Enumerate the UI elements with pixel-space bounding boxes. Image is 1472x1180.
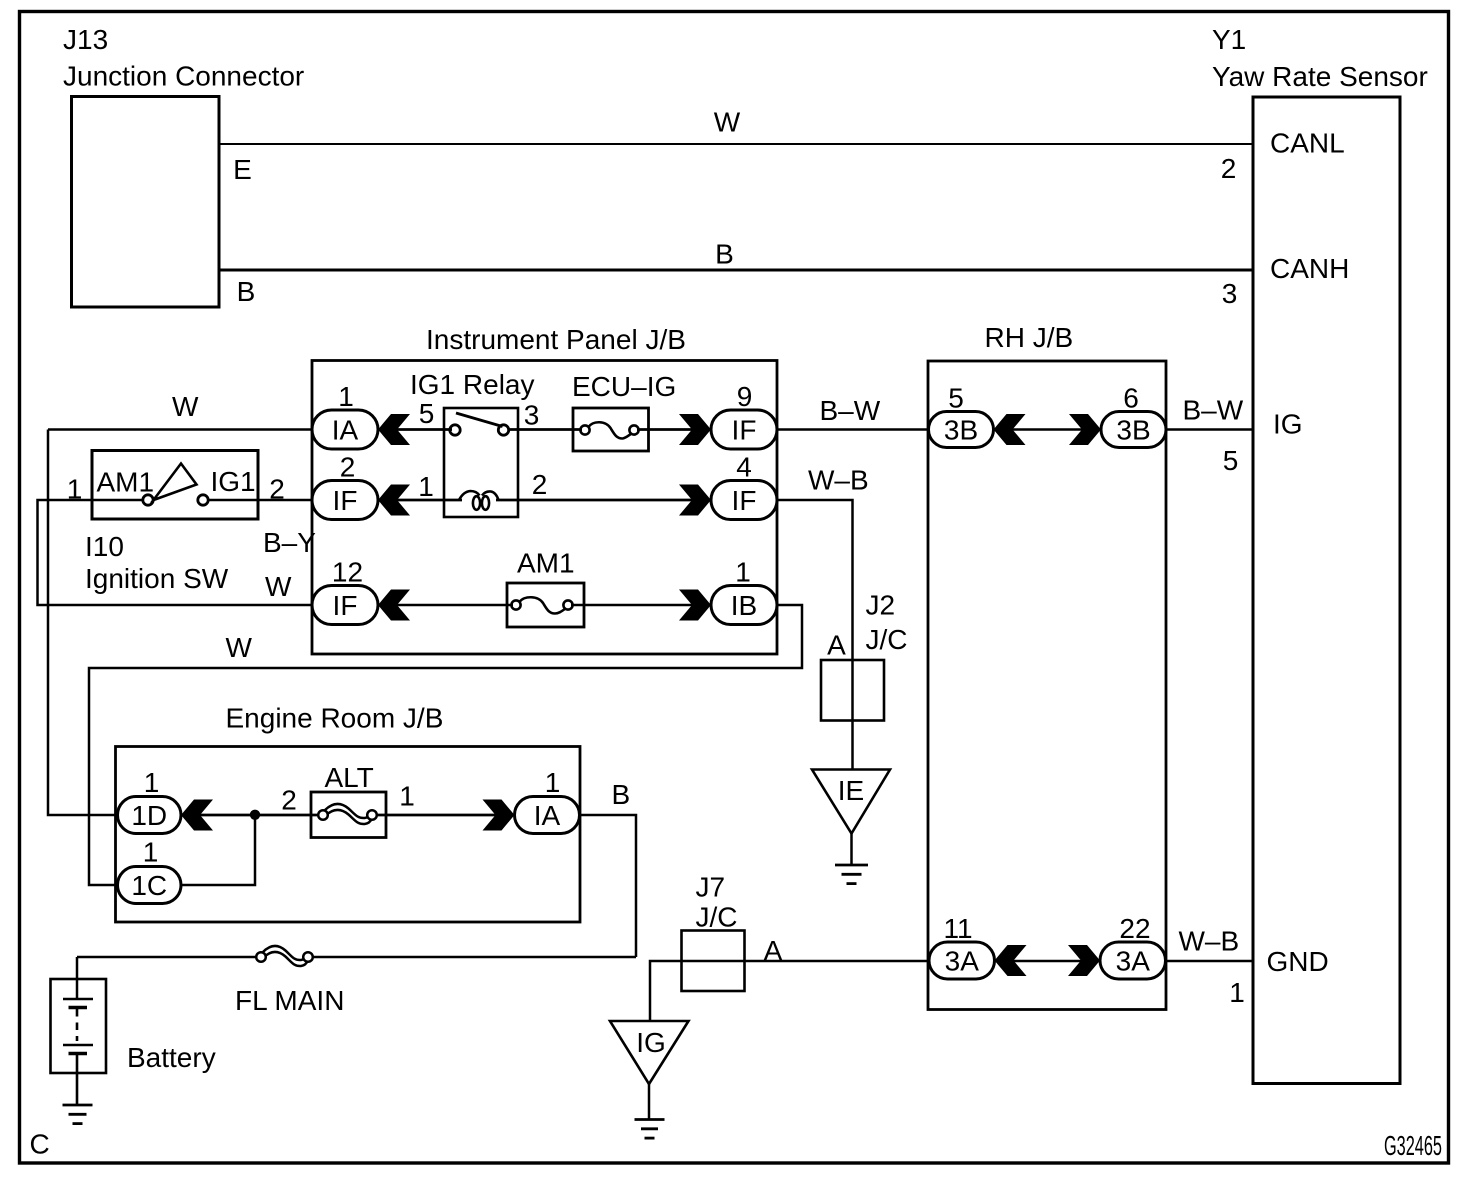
wire relay coil to IF4 xyxy=(496,499,711,502)
svg-text:3B: 3B xyxy=(1116,415,1150,446)
svg-text:Ignition SW: Ignition SW xyxy=(85,563,229,594)
svg-text:1D: 1D xyxy=(131,800,167,831)
svg-text:IF: IF xyxy=(333,485,358,516)
svg-text:1: 1 xyxy=(735,557,751,588)
svg-text:2: 2 xyxy=(269,474,285,505)
svg-text:IA: IA xyxy=(332,415,359,446)
svg-text:Junction Connector: Junction Connector xyxy=(63,61,304,92)
svg-text:GND: GND xyxy=(1267,946,1329,977)
arrow into 3A11 xyxy=(995,945,1027,976)
connector IA engine room pin1 xyxy=(515,797,580,834)
wire W from IB1 down and left to 1C riser xyxy=(89,605,802,885)
svg-text:ECU–IG: ECU–IG xyxy=(572,371,676,402)
svg-text:CANH: CANH xyxy=(1270,253,1349,284)
svg-text:1: 1 xyxy=(399,781,415,812)
wire B-W 3B6 to Y1 IG pin5 xyxy=(1166,428,1253,431)
svg-text:FL MAIN: FL MAIN xyxy=(235,985,344,1016)
svg-text:2: 2 xyxy=(1221,153,1237,184)
svg-text:J/C: J/C xyxy=(696,902,738,933)
svg-text:Yaw Rate Sensor: Yaw Rate Sensor xyxy=(1212,61,1428,92)
arrow into 3B6 xyxy=(1069,414,1101,445)
svg-text:J13: J13 xyxy=(63,24,108,55)
svg-text:AM1: AM1 xyxy=(517,548,575,579)
svg-text:E: E xyxy=(233,154,252,185)
svg-text:IA: IA xyxy=(534,800,561,831)
svg-text:1C: 1C xyxy=(131,870,167,901)
ground triangle IG xyxy=(610,1021,689,1084)
wire W-B 3A22 to Y1 GND pin1 xyxy=(1166,960,1253,963)
wire between 3B5 and 3B6 xyxy=(993,428,1101,431)
arrow into IF2 xyxy=(378,485,410,516)
svg-text:1: 1 xyxy=(545,767,561,798)
svg-text:ALT: ALT xyxy=(325,762,374,793)
svg-text:4: 4 xyxy=(736,452,752,483)
svg-text:J2: J2 xyxy=(866,590,896,621)
wire IG triangle to ground xyxy=(648,1084,651,1119)
svg-text:1: 1 xyxy=(338,381,354,412)
svg-text:A: A xyxy=(764,935,783,966)
relay IG1 switch blade xyxy=(456,413,503,427)
svg-text:3A: 3A xyxy=(1116,946,1151,977)
connector IF instrument panel pin2 xyxy=(312,481,378,520)
wire IG1 contact to ignition box right xyxy=(208,499,259,502)
ignition switch lever xyxy=(154,464,197,501)
wire B CANH (J13 B to Y1 pin3) xyxy=(219,269,1253,272)
wire ignition box left to AM1 contact xyxy=(92,499,144,502)
svg-text:W: W xyxy=(226,632,253,663)
connector 1D engine room pin1 xyxy=(118,797,182,834)
fusible link ALT box xyxy=(311,792,386,838)
svg-text:C: C xyxy=(30,1129,50,1160)
wire ALT to engine IA xyxy=(376,814,515,817)
svg-text:1: 1 xyxy=(418,471,434,502)
svg-text:J/C: J/C xyxy=(866,624,908,655)
svg-text:IF: IF xyxy=(333,590,358,621)
svg-text:IG: IG xyxy=(1273,409,1303,440)
wire IE triangle to ground xyxy=(850,834,853,866)
fuse AM1 box xyxy=(507,583,584,627)
svg-text:6: 6 xyxy=(1123,383,1139,414)
fuse ECU-IG element xyxy=(580,422,638,438)
svg-text:IE: IE xyxy=(838,775,864,806)
yaw rate sensor Y1 box xyxy=(1253,97,1400,1084)
wire B-W IF9 to 3B5 xyxy=(777,428,929,431)
relay IG1 contact pins xyxy=(450,425,509,435)
svg-text:W: W xyxy=(172,391,199,422)
wire W from IA to left riser xyxy=(48,428,312,431)
wire fuse AM1 to IB1 xyxy=(571,604,711,607)
wire B engine IA to FL MAIN riser xyxy=(580,815,636,957)
junction J7 J/C box xyxy=(682,931,745,992)
svg-text:9: 9 xyxy=(737,381,753,412)
svg-text:5: 5 xyxy=(1223,445,1239,476)
relay IG1 box xyxy=(444,408,518,517)
arrow into IF9 xyxy=(679,414,711,445)
wire fuse ECU-IG to IF9 xyxy=(637,428,711,431)
svg-text:2: 2 xyxy=(532,469,548,500)
svg-text:J7: J7 xyxy=(696,872,726,903)
svg-text:B: B xyxy=(612,779,631,810)
wire between 3A11 and 3A22 xyxy=(994,960,1100,963)
svg-text:IG1 Relay: IG1 Relay xyxy=(410,369,535,400)
junction J2 J/C box xyxy=(821,660,884,721)
svg-text:IF: IF xyxy=(732,485,757,516)
ignition switch contacts AM1 IG1 xyxy=(143,495,208,505)
wire 1D row to ALT xyxy=(181,814,319,817)
svg-text:5: 5 xyxy=(419,398,435,429)
battery box xyxy=(51,979,107,1073)
svg-text:2: 2 xyxy=(340,452,356,483)
Engine Room J/B box xyxy=(116,747,581,923)
svg-text:AM1: AM1 xyxy=(97,467,155,498)
svg-text:G32465: G32465 xyxy=(1384,1130,1442,1161)
svg-text:5: 5 xyxy=(948,383,964,414)
svg-text:3B: 3B xyxy=(944,415,978,446)
svg-text:Instrument Panel J/B: Instrument Panel J/B xyxy=(426,324,686,355)
svg-text:1: 1 xyxy=(67,474,83,505)
svg-text:IG1: IG1 xyxy=(211,466,256,497)
connector 1C engine room pin1 xyxy=(118,867,182,904)
svg-text:RH J/B: RH J/B xyxy=(985,322,1074,353)
svg-text:I10: I10 xyxy=(85,531,124,562)
svg-text:3A: 3A xyxy=(945,946,980,977)
Instrument Panel J/B box xyxy=(312,361,777,655)
svg-text:Engine Room J/B: Engine Room J/B xyxy=(226,703,444,734)
wire FL MAIN row right xyxy=(311,956,636,959)
wire battery feed xyxy=(76,957,79,999)
connector IA instrument panel pin1 xyxy=(312,410,378,449)
wire W-B 3A11 through J7 to IG triangle xyxy=(650,961,929,1021)
wire IF12 to fuse AM1 xyxy=(378,604,513,607)
svg-text:W–B: W–B xyxy=(808,465,869,496)
node junction dot on 1D row xyxy=(250,810,260,820)
arrow into 1D xyxy=(181,800,213,831)
connector 3B RH J/B pin5 xyxy=(929,412,994,448)
svg-text:B: B xyxy=(237,276,256,307)
arrow into IA xyxy=(378,414,410,445)
svg-text:2: 2 xyxy=(281,785,297,816)
svg-text:W: W xyxy=(714,107,741,138)
svg-text:IG: IG xyxy=(636,1027,666,1058)
connector 3B RH J/B pin6 xyxy=(1101,412,1166,448)
svg-text:B–W: B–W xyxy=(820,395,881,426)
connector IB instrument panel pin1 xyxy=(711,586,777,625)
arrow into 3A22 xyxy=(1068,945,1100,976)
wire IF2 to relay coil xyxy=(378,499,462,502)
svg-text:1: 1 xyxy=(1229,977,1245,1008)
svg-text:3: 3 xyxy=(1222,278,1238,309)
fuse ECU-IG box xyxy=(573,408,649,451)
svg-text:1: 1 xyxy=(143,837,159,868)
battery cells xyxy=(63,999,93,1105)
ground IG xyxy=(635,1120,665,1139)
svg-text:Battery: Battery xyxy=(127,1042,216,1073)
svg-text:B–W: B–W xyxy=(1183,395,1244,426)
svg-text:12: 12 xyxy=(332,557,363,588)
svg-text:CANL: CANL xyxy=(1270,128,1345,159)
svg-text:B: B xyxy=(715,239,734,270)
wire W-B IF4 to J2 junction xyxy=(777,500,853,769)
wire FL MAIN row left xyxy=(77,956,258,959)
svg-text:W: W xyxy=(265,571,292,602)
wire relay to fuse ECU-IG xyxy=(508,428,582,431)
fusible link ALT element xyxy=(318,804,377,824)
ground triangle IE xyxy=(812,770,890,834)
wire 1C to junction node xyxy=(180,815,255,885)
connector IF instrument panel pin4 xyxy=(711,481,777,520)
svg-text:3: 3 xyxy=(524,400,540,431)
relay IG1 coil xyxy=(459,491,499,510)
fusible link FL MAIN element xyxy=(256,946,313,966)
connector IF instrument panel pin9 xyxy=(711,410,777,449)
fuse AM1 element xyxy=(511,597,572,613)
ignition switch I10 box xyxy=(92,451,258,520)
svg-text:11: 11 xyxy=(943,913,972,944)
arrow into IB1 xyxy=(679,590,711,621)
svg-text:IF: IF xyxy=(732,415,757,446)
arrow into IF12 xyxy=(378,590,410,621)
svg-text:1: 1 xyxy=(144,767,160,798)
junction connector J13 box xyxy=(72,97,220,308)
wire row IG inside panel left xyxy=(378,428,452,431)
svg-text:22: 22 xyxy=(1119,913,1150,944)
arrow into engine IA xyxy=(483,800,515,831)
connector 3A RH J/B pin22 xyxy=(1100,942,1166,979)
svg-text:W–B: W–B xyxy=(1179,926,1240,957)
ground battery xyxy=(63,1105,93,1124)
wire ignition IG1 pin2 to IF2 xyxy=(258,499,312,502)
svg-text:IB: IB xyxy=(731,590,757,621)
RH J/B box xyxy=(928,361,1166,1010)
connector IF instrument panel pin12 xyxy=(312,586,378,625)
wire W riser down to 1D xyxy=(48,430,118,816)
arrow into IF4 xyxy=(679,485,711,516)
wire W CANL (J13 E to Y1 pin2) xyxy=(219,143,1253,145)
svg-text:A: A xyxy=(827,630,846,661)
arrow into 3B5 xyxy=(994,414,1026,445)
wire ignition AM1 pin1 to IF12 row xyxy=(38,500,313,605)
ground IE xyxy=(835,865,868,884)
connector 3A RH J/B pin11 xyxy=(929,942,995,979)
svg-text:B–Y: B–Y xyxy=(263,527,316,558)
svg-text:Y1: Y1 xyxy=(1212,24,1246,55)
